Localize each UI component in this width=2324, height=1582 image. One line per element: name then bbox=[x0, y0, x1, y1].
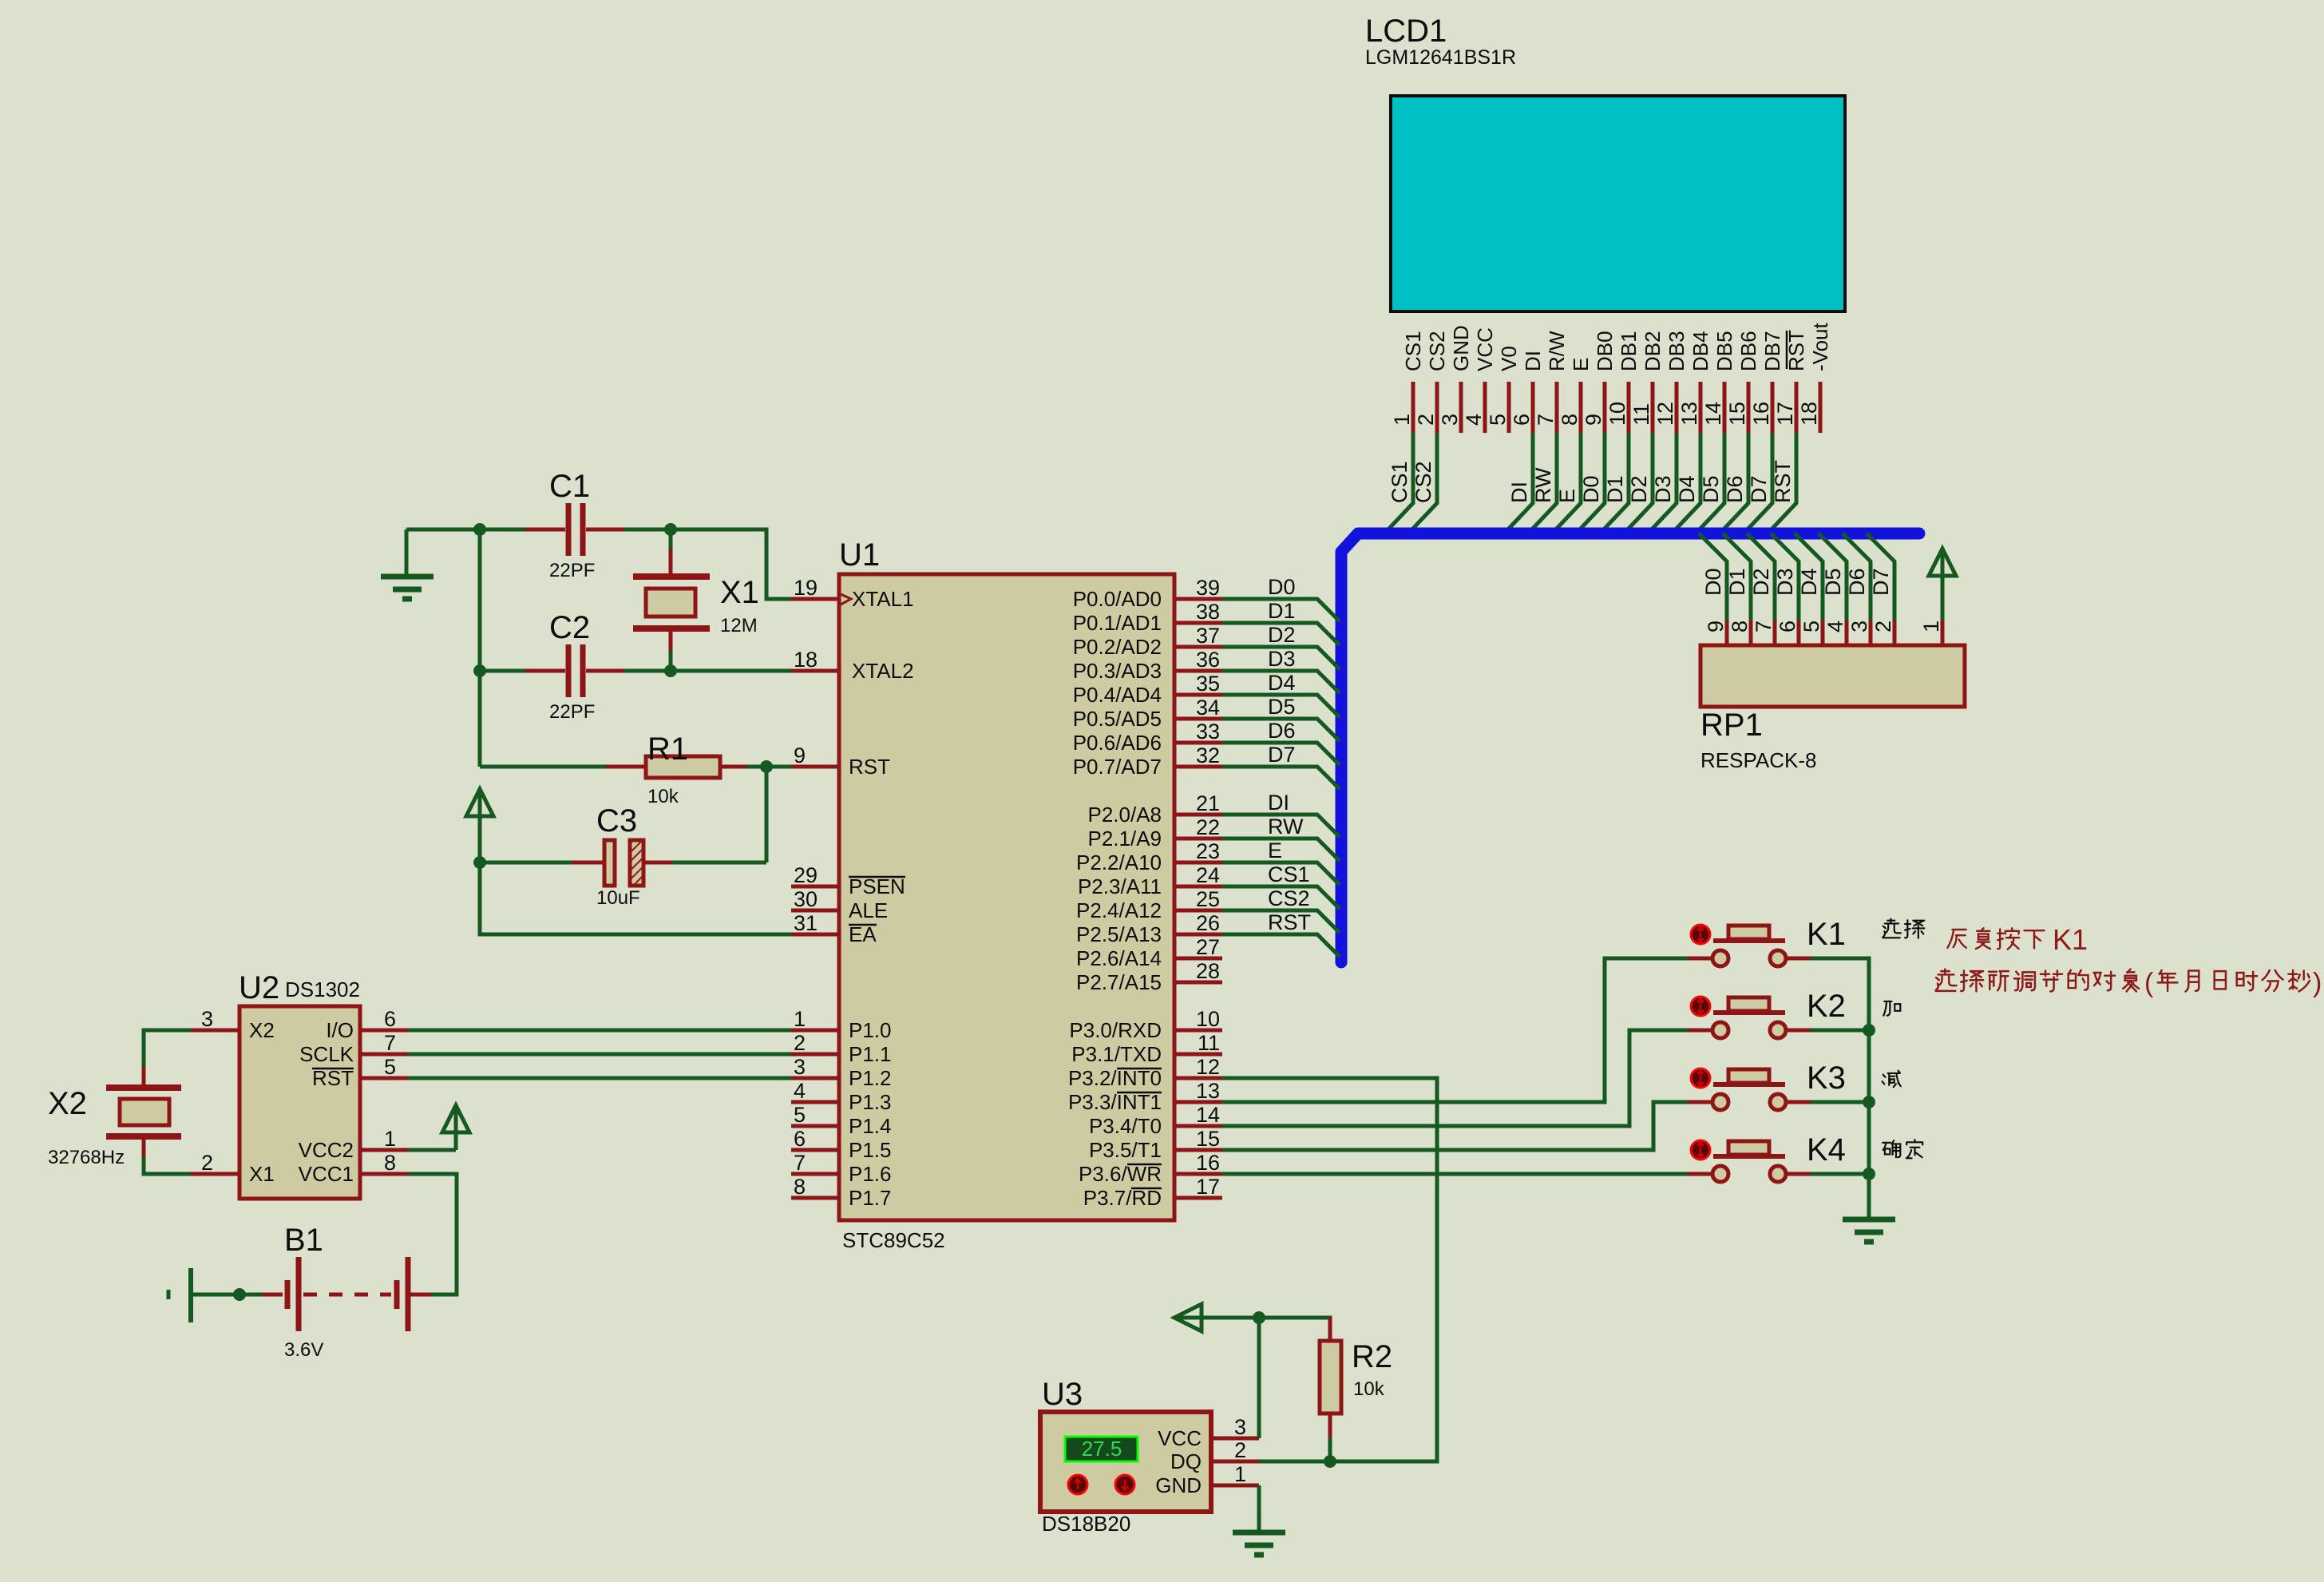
svg-text:R/W: R/W bbox=[1545, 331, 1569, 371]
svg-text:P3.5/T1: P3.5/T1 bbox=[1089, 1138, 1162, 1162]
resistor R1 bbox=[480, 765, 606, 769]
svg-text:1: 1 bbox=[1390, 414, 1414, 426]
svg-text:19: 19 bbox=[794, 576, 818, 600]
svg-text:P2.6/A14: P2.6/A14 bbox=[1076, 946, 1162, 970]
svg-text:E: E bbox=[1569, 358, 1593, 371]
wire LCD1 pin 11 net D2 to bus bbox=[1625, 433, 1653, 533]
svg-text:22PF: 22PF bbox=[549, 701, 595, 723]
svg-text:DI: DI bbox=[1521, 351, 1545, 371]
U1 pin 6 P1.5 bbox=[791, 1148, 839, 1152]
svg-text:CS1: CS1 bbox=[1401, 331, 1425, 371]
svg-text:U1: U1 bbox=[839, 537, 880, 573]
svg-text:DB7: DB7 bbox=[1760, 331, 1784, 371]
svg-text:31: 31 bbox=[794, 911, 818, 935]
svg-text:D3: D3 bbox=[1773, 568, 1797, 596]
svg-text:5: 5 bbox=[794, 1103, 806, 1127]
wire R1 junction down to C3 row bbox=[765, 767, 769, 862]
RP1 pin 8 stub and number bbox=[1749, 621, 1753, 645]
wire U1 P2.1 net RW to bus bbox=[1222, 839, 1340, 861]
svg-text:1: 1 bbox=[384, 1127, 396, 1151]
wire LCD1 pin 12 net D3 to bus bbox=[1649, 433, 1677, 533]
svg-text:14: 14 bbox=[1701, 402, 1725, 426]
temperature sensor U3 body bbox=[1040, 1412, 1211, 1512]
power symbol VCC above C3 bbox=[466, 789, 493, 816]
svg-text:P0.3/AD3: P0.3/AD3 bbox=[1073, 659, 1162, 683]
svg-text:7: 7 bbox=[1534, 414, 1558, 426]
svg-text:DS18B20: DS18B20 bbox=[1042, 1512, 1130, 1536]
wire LCD1 pin 8 net E to bus bbox=[1553, 433, 1581, 533]
svg-text:DI: DI bbox=[1268, 791, 1289, 815]
U1 pin 16 P3.6/WR bbox=[1174, 1172, 1222, 1176]
wire VCC rail to R2 top bbox=[1259, 1318, 1330, 1322]
U1 pin 34 P0.5/AD5 bbox=[1174, 717, 1222, 721]
svg-text:D5: D5 bbox=[1699, 475, 1723, 503]
wire LCD1 pin 10 net D1 to bus bbox=[1601, 433, 1629, 533]
U1 pin 39 P0.0/AD0 bbox=[1174, 597, 1222, 601]
svg-text:12: 12 bbox=[1196, 1055, 1220, 1079]
wire U2 RST to U1 P1.2 bbox=[408, 1076, 791, 1080]
RP1 pin 7 stub and number bbox=[1773, 621, 1777, 645]
svg-text:P0.1/AD1: P0.1/AD1 bbox=[1073, 611, 1162, 635]
svg-text:X1: X1 bbox=[720, 575, 759, 610]
U1 pin 30 ALE bbox=[791, 909, 839, 913]
svg-text:10k: 10k bbox=[1353, 1378, 1385, 1400]
RP1 pin 2 stub and number bbox=[1893, 621, 1897, 645]
svg-text:P2.3/A11: P2.3/A11 bbox=[1078, 874, 1162, 898]
wire LCD1 pin 6 net DI to bus bbox=[1505, 433, 1533, 533]
node junction R1-RST bbox=[760, 760, 773, 773]
wire U1 P0.7 net D7 to bus bbox=[1222, 767, 1340, 789]
svg-text:8: 8 bbox=[1728, 621, 1752, 632]
svg-text:VCC1: VCC1 bbox=[299, 1162, 354, 1186]
svg-text:16: 16 bbox=[1196, 1151, 1220, 1175]
U1 pin 29 PSEN bbox=[791, 885, 839, 889]
svg-text:15: 15 bbox=[1725, 402, 1749, 426]
svg-text:P0.7/AD7: P0.7/AD7 bbox=[1073, 755, 1162, 779]
svg-text:P1.7: P1.7 bbox=[849, 1186, 892, 1210]
RP1 pin 4 stub and number bbox=[1845, 621, 1849, 645]
svg-text:E: E bbox=[1555, 489, 1579, 503]
U1 pin 9 RST bbox=[791, 765, 839, 769]
svg-text:12M: 12M bbox=[720, 615, 758, 636]
node junction C2-left bbox=[473, 664, 486, 677]
svg-text:P1.0: P1.0 bbox=[849, 1018, 892, 1042]
svg-text:P1.1: P1.1 bbox=[849, 1042, 892, 1066]
svg-text:3: 3 bbox=[794, 1055, 806, 1079]
svg-text:DB6: DB6 bbox=[1736, 331, 1760, 371]
svg-text:CS1: CS1 bbox=[1268, 862, 1310, 886]
U2 pin 7 SCLK bbox=[360, 1053, 408, 1057]
svg-text:DB3: DB3 bbox=[1665, 331, 1689, 371]
svg-text:D4: D4 bbox=[1797, 568, 1821, 596]
svg-text:P0.4/AD4: P0.4/AD4 bbox=[1073, 683, 1162, 707]
svg-text:P0.0/AD0: P0.0/AD0 bbox=[1073, 587, 1162, 611]
node junction K4 rail bbox=[1863, 1168, 1875, 1180]
svg-text:D2: D2 bbox=[1627, 475, 1651, 503]
svg-text:CS2: CS2 bbox=[1425, 331, 1449, 371]
svg-text:1: 1 bbox=[1919, 621, 1943, 632]
svg-text:2: 2 bbox=[201, 1151, 213, 1175]
svg-text:B1: B1 bbox=[284, 1223, 323, 1258]
node junction C3-left bbox=[473, 856, 486, 869]
svg-text:C3: C3 bbox=[596, 803, 637, 839]
U1 pin 14 P3.4/T0 bbox=[1174, 1124, 1222, 1128]
svg-text:9: 9 bbox=[794, 743, 806, 767]
svg-text:STC89C52: STC89C52 bbox=[842, 1228, 945, 1252]
svg-text:P2.2/A10: P2.2/A10 bbox=[1076, 850, 1162, 874]
wire bus to RP1 pin 3 net D6 bbox=[1843, 533, 1871, 621]
svg-text:25: 25 bbox=[1196, 887, 1220, 911]
RP1 pin 9 stub and number bbox=[1725, 621, 1729, 645]
wire C3 junction down to EA bbox=[480, 862, 791, 934]
power symbol VCC at RP1 pin 1 bbox=[1929, 549, 1956, 576]
svg-text:VCC2: VCC2 bbox=[299, 1138, 354, 1162]
wire U1 P0.6 net D6 to bus bbox=[1222, 743, 1340, 765]
svg-text:K1: K1 bbox=[2053, 923, 2088, 956]
svg-text:10k: 10k bbox=[647, 786, 679, 807]
U1 pin 27 P2.6/A14 bbox=[1174, 957, 1222, 961]
svg-text:X2: X2 bbox=[249, 1018, 275, 1042]
svg-text:P3.7/RD: P3.7/RD bbox=[1083, 1186, 1162, 1210]
U1 pin 22 P2.1/A9 bbox=[1174, 837, 1222, 841]
wire bus to RP1 pin 8 net D1 bbox=[1723, 533, 1751, 621]
svg-text:7: 7 bbox=[384, 1031, 396, 1055]
svg-text:CS1: CS1 bbox=[1388, 461, 1411, 503]
svg-text:P1.6: P1.6 bbox=[849, 1162, 892, 1186]
crystal X2 and wires to U2 bbox=[144, 1030, 191, 1067]
svg-text:SCLK: SCLK bbox=[299, 1042, 354, 1066]
svg-text:RST: RST bbox=[312, 1066, 354, 1090]
svg-text:8: 8 bbox=[1558, 414, 1582, 426]
U1 pin 35 P0.4/AD4 bbox=[1174, 693, 1222, 697]
U1 pin 2 P1.1 bbox=[791, 1053, 839, 1057]
wire LCD1 pin 9 net D0 to bus bbox=[1577, 433, 1605, 533]
svg-text:P0.5/AD5: P0.5/AD5 bbox=[1073, 707, 1162, 731]
U1 pin 7 P1.6 bbox=[791, 1172, 839, 1176]
svg-text:D5: D5 bbox=[1268, 695, 1296, 719]
RP1 pin 1 stub and number bbox=[1941, 621, 1945, 645]
svg-text:D4: D4 bbox=[1675, 475, 1699, 503]
svg-text:R2: R2 bbox=[1352, 1339, 1392, 1374]
svg-text:PSEN: PSEN bbox=[849, 874, 905, 898]
wire X1 junction to XTAL1 corner bbox=[671, 529, 791, 599]
svg-text:3: 3 bbox=[1847, 621, 1871, 632]
microcontroller U1 body bbox=[839, 574, 1174, 1220]
svg-text:P2.4/A12: P2.4/A12 bbox=[1076, 898, 1162, 922]
svg-text:LCD1: LCD1 bbox=[1365, 14, 1447, 49]
node junction K3 rail bbox=[1863, 1096, 1875, 1108]
U1 pin 1 P1.0 bbox=[791, 1029, 839, 1033]
svg-text:10: 10 bbox=[1605, 402, 1629, 426]
RP1 pin 3 stub and number bbox=[1869, 621, 1873, 645]
svg-text:-Vout: -Vout bbox=[1808, 323, 1832, 371]
svg-text:DB0: DB0 bbox=[1593, 331, 1617, 371]
svg-text:3: 3 bbox=[1438, 414, 1462, 426]
power symbol VCC left arrow bbox=[1174, 1304, 1202, 1331]
node junction R2-DQ bbox=[1324, 1455, 1336, 1468]
wire C2 junction down to R1 row bbox=[478, 671, 482, 767]
svg-text:RW: RW bbox=[1531, 467, 1555, 503]
U1 XTAL1 clock input arrow bbox=[841, 594, 851, 605]
svg-text:18: 18 bbox=[1797, 402, 1821, 426]
U3 pin 3 VCC bbox=[1211, 1437, 1259, 1441]
svg-text:D6: D6 bbox=[1845, 568, 1869, 596]
svg-text:39: 39 bbox=[1196, 576, 1220, 600]
wire ground to C1 junction bbox=[406, 528, 480, 532]
svg-text:5: 5 bbox=[1799, 621, 1823, 632]
svg-text:EA: EA bbox=[849, 922, 877, 946]
U1 pin 28 P2.7/A15 bbox=[1174, 981, 1222, 985]
svg-text:26: 26 bbox=[1196, 911, 1220, 935]
svg-text:XTAL1: XTAL1 bbox=[852, 587, 914, 611]
svg-text:I/O: I/O bbox=[326, 1018, 354, 1042]
svg-text:P3.0/RXD: P3.0/RXD bbox=[1069, 1018, 1162, 1042]
U1 pin 26 P2.5/A13 bbox=[1174, 933, 1222, 937]
svg-text:4: 4 bbox=[794, 1079, 806, 1103]
RP1 pin 5 stub and number bbox=[1821, 621, 1825, 645]
svg-text:GND: GND bbox=[1449, 325, 1473, 371]
svg-text:RST: RST bbox=[1784, 330, 1808, 371]
svg-text:U3: U3 bbox=[1042, 1377, 1083, 1412]
U2 pin 2 X1 bbox=[191, 1172, 240, 1176]
svg-text:30: 30 bbox=[794, 887, 818, 911]
svg-text:27.5: 27.5 bbox=[1082, 1437, 1122, 1461]
ground at C1/C2 net bbox=[405, 529, 409, 574]
svg-text:8: 8 bbox=[384, 1151, 396, 1175]
U1 pin 8 P1.7 bbox=[791, 1196, 839, 1200]
node junction C1-left bbox=[473, 523, 486, 536]
U3 temperature display bbox=[1065, 1437, 1138, 1461]
U1 pin 15 P3.5/T1 bbox=[1174, 1148, 1222, 1152]
svg-text:P2.7/A15: P2.7/A15 bbox=[1076, 970, 1162, 994]
svg-text:27: 27 bbox=[1196, 935, 1220, 959]
svg-text:17: 17 bbox=[1196, 1175, 1220, 1199]
wire bus to RP1 pin 7 net D2 bbox=[1747, 533, 1775, 621]
wire U3 VCC up to power rail bbox=[1257, 1318, 1261, 1438]
svg-text:P3.2/INT0: P3.2/INT0 bbox=[1068, 1066, 1162, 1090]
LCD LCD1 screen body bbox=[1391, 96, 1845, 311]
annotation line 2 (select object year month day hour minute second) bbox=[1935, 969, 1956, 991]
wire C1 junction down to C2 junction bbox=[478, 529, 482, 671]
svg-text:X1: X1 bbox=[249, 1162, 275, 1186]
node junction VCC rail bbox=[1253, 1311, 1265, 1324]
ground at U3 bbox=[1233, 1530, 1285, 1536]
svg-text:DB5: DB5 bbox=[1712, 331, 1736, 371]
svg-text:8: 8 bbox=[794, 1175, 806, 1199]
wire U1 P3.6 to K4 bbox=[1222, 1172, 1688, 1176]
svg-text:D1: D1 bbox=[1603, 475, 1627, 503]
resistor pack RP1 body bbox=[1700, 645, 1965, 707]
U1 pin 4 P1.3 bbox=[791, 1100, 839, 1104]
svg-text:DI: DI bbox=[1507, 482, 1531, 503]
svg-text:D2: D2 bbox=[1268, 623, 1296, 647]
wire U1 P0.2 net D2 to bus bbox=[1222, 647, 1340, 669]
RP1 pin 6 stub and number bbox=[1797, 621, 1801, 645]
U1 pin 18 XTAL2 bbox=[791, 669, 839, 673]
svg-text:10uF: 10uF bbox=[596, 887, 640, 909]
U1 pin 13 P3.3/INT1 bbox=[1174, 1100, 1222, 1104]
wire C1 left stub bbox=[480, 528, 565, 532]
wire U1 P3.3 to K1 bbox=[1222, 958, 1688, 1102]
svg-text:(: ( bbox=[2144, 968, 2154, 998]
U1 pin 19 XTAL1 bbox=[791, 597, 839, 601]
node junction X1-bottom bbox=[664, 664, 677, 677]
svg-text:RESPACK-8: RESPACK-8 bbox=[1700, 748, 1816, 772]
wire LCD1 pin 2 net CS2 to bus bbox=[1409, 433, 1437, 533]
svg-text:CS2: CS2 bbox=[1411, 461, 1435, 503]
node junction battery bbox=[233, 1288, 246, 1301]
svg-text:RST: RST bbox=[1771, 460, 1795, 503]
svg-text:4: 4 bbox=[1462, 414, 1486, 426]
svg-text:LGM12641BS1R: LGM12641BS1R bbox=[1365, 46, 1516, 69]
U1 pin 38 P0.1/AD1 bbox=[1174, 621, 1222, 625]
wire U3 DQ through R2 junction to U1 P3.2 bbox=[1222, 1078, 1437, 1461]
node junction X1-top bbox=[664, 523, 677, 536]
ground at button rail bbox=[1843, 1217, 1895, 1223]
wire bus to RP1 pin 9 net D0 bbox=[1699, 533, 1727, 621]
svg-text:16: 16 bbox=[1749, 402, 1773, 426]
U3 pin 1 GND bbox=[1211, 1484, 1259, 1488]
U1 pin 31 EA bbox=[791, 933, 839, 937]
svg-text:22PF: 22PF bbox=[549, 560, 595, 581]
wire U1 P0.0 net D0 to bus bbox=[1222, 599, 1340, 621]
wire LCD1 pin 7 net RW to bus bbox=[1529, 433, 1557, 533]
K1 function label (select) bbox=[1883, 919, 1901, 938]
wire U1 P0.4 net D4 to bus bbox=[1222, 695, 1340, 717]
bus (blue) from LCD/RP1 down to U1 P0/P2 area bbox=[1341, 533, 1919, 962]
svg-text:R1: R1 bbox=[647, 732, 688, 767]
push button K1 bbox=[1691, 925, 1710, 944]
svg-text:P3.6/WR: P3.6/WR bbox=[1079, 1162, 1162, 1186]
svg-text:37: 37 bbox=[1196, 624, 1220, 648]
svg-text:P3.1/TXD: P3.1/TXD bbox=[1071, 1042, 1162, 1066]
svg-text:VCC: VCC bbox=[1473, 327, 1497, 371]
svg-text:RST: RST bbox=[1268, 910, 1311, 934]
svg-text:CS2: CS2 bbox=[1268, 886, 1310, 910]
svg-text:6: 6 bbox=[794, 1127, 806, 1151]
svg-text:2: 2 bbox=[1414, 414, 1438, 426]
svg-text:6: 6 bbox=[1510, 414, 1534, 426]
svg-text:7: 7 bbox=[794, 1151, 806, 1175]
U1 pin 32 P0.7/AD7 bbox=[1174, 765, 1222, 769]
push button K2 bbox=[1691, 997, 1710, 1016]
K3 function label (minus) bbox=[1883, 1071, 1901, 1088]
wire K1 to common rail bbox=[1811, 958, 1869, 1219]
svg-text:ALE: ALE bbox=[849, 898, 888, 922]
svg-text:10: 10 bbox=[1196, 1007, 1220, 1031]
svg-text:11: 11 bbox=[1629, 403, 1653, 426]
svg-text:12: 12 bbox=[1653, 402, 1677, 426]
svg-text:D0: D0 bbox=[1579, 475, 1603, 503]
U2 pin 5 RST bbox=[360, 1076, 408, 1080]
U1 pin 17 P3.7/RD bbox=[1174, 1196, 1222, 1200]
svg-text:K1: K1 bbox=[1807, 917, 1846, 952]
svg-text:15: 15 bbox=[1196, 1127, 1220, 1151]
svg-text:P2.1/A9: P2.1/A9 bbox=[1087, 827, 1162, 850]
wire bus to RP1 pin 6 net D3 bbox=[1771, 533, 1799, 621]
U2 pin 6 I/O bbox=[360, 1029, 408, 1033]
svg-text:GND: GND bbox=[1155, 1473, 1202, 1497]
svg-text:K2: K2 bbox=[1807, 989, 1846, 1024]
svg-text:D2: D2 bbox=[1749, 568, 1773, 596]
svg-text:2: 2 bbox=[794, 1031, 806, 1055]
wire K4 to rail bbox=[1811, 1172, 1869, 1176]
crystal X1 bbox=[669, 533, 673, 549]
U1 pin 11 P3.1/TXD bbox=[1174, 1053, 1222, 1057]
svg-text:3: 3 bbox=[201, 1007, 213, 1031]
svg-text:P2.5/A13: P2.5/A13 bbox=[1076, 922, 1162, 946]
svg-text:24: 24 bbox=[1196, 863, 1220, 887]
svg-text:V0: V0 bbox=[1497, 346, 1521, 371]
wire U3 GND down to ground bbox=[1257, 1485, 1261, 1531]
svg-text:VCC: VCC bbox=[1158, 1426, 1202, 1450]
svg-text:13: 13 bbox=[1677, 402, 1701, 426]
svg-text:DB4: DB4 bbox=[1689, 331, 1712, 371]
wire U2 SCLK to U1 P1.1 bbox=[408, 1053, 791, 1057]
push button K4 bbox=[1691, 1140, 1710, 1160]
svg-text:D1: D1 bbox=[1725, 568, 1749, 596]
svg-text:K3: K3 bbox=[1807, 1061, 1846, 1096]
svg-text:X2: X2 bbox=[48, 1086, 87, 1121]
U1 pin 3 P1.2 bbox=[791, 1076, 839, 1080]
wire LCD1 pin 13 net D4 to bus bbox=[1673, 433, 1700, 533]
svg-text:P3.4/T0: P3.4/T0 bbox=[1089, 1114, 1162, 1138]
wire K3 to rail bbox=[1811, 1100, 1869, 1104]
svg-text:17: 17 bbox=[1773, 402, 1797, 426]
wire U1 P2.0 net DI to bus bbox=[1222, 815, 1340, 837]
battery B1 bbox=[167, 1290, 171, 1299]
U1 pin 37 P0.2/AD2 bbox=[1174, 645, 1222, 649]
svg-text:9: 9 bbox=[1704, 621, 1728, 632]
wire LCD1 pin 17 net RST to bus bbox=[1768, 433, 1796, 533]
wire U1 P0.3 net D3 to bus bbox=[1222, 671, 1340, 693]
capacitor C3 bbox=[480, 861, 572, 865]
svg-text:32: 32 bbox=[1196, 743, 1220, 767]
U3 down button bbox=[1115, 1475, 1134, 1494]
wire U2 VCC1 to battery B1 bbox=[408, 1174, 457, 1295]
svg-text:9: 9 bbox=[1582, 414, 1605, 426]
svg-text:): ) bbox=[2313, 968, 2322, 998]
svg-text:D7: D7 bbox=[1268, 743, 1296, 767]
wire LCD1 pin 14 net D5 to bus bbox=[1696, 433, 1724, 533]
wire U1 P0.5 net D5 to bus bbox=[1222, 719, 1340, 741]
svg-text:RP1: RP1 bbox=[1700, 708, 1763, 743]
svg-text:DQ: DQ bbox=[1170, 1449, 1202, 1473]
svg-text:D6: D6 bbox=[1723, 475, 1747, 503]
svg-text:P1.4: P1.4 bbox=[849, 1114, 892, 1138]
wire U1 P2.3 net CS1 to bus bbox=[1222, 886, 1340, 909]
wire U1 P2.5 net RST to bus bbox=[1222, 934, 1340, 957]
svg-text:2: 2 bbox=[1871, 621, 1895, 632]
svg-text:RST: RST bbox=[849, 755, 890, 779]
U2 pin 8 VCC1 bbox=[360, 1172, 408, 1176]
U2 pin 1 VCC2 bbox=[360, 1148, 408, 1152]
svg-text:D3: D3 bbox=[1268, 647, 1296, 671]
U3 pin 2 DQ bbox=[1211, 1460, 1259, 1464]
svg-text:32768Hz: 32768Hz bbox=[48, 1147, 125, 1168]
svg-text:D7: D7 bbox=[1869, 568, 1893, 596]
U1 pin 24 P2.3/A11 bbox=[1174, 885, 1222, 889]
svg-text:RW: RW bbox=[1268, 815, 1304, 839]
wire U1 P0.1 net D1 to bus bbox=[1222, 623, 1340, 645]
svg-text:33: 33 bbox=[1196, 720, 1220, 743]
svg-text:28: 28 bbox=[1196, 959, 1220, 983]
U1 pin 21 P2.0/A8 bbox=[1174, 813, 1222, 817]
svg-text:29: 29 bbox=[794, 863, 818, 887]
U1 pin 10 P3.0/RXD bbox=[1174, 1029, 1222, 1033]
svg-text:6: 6 bbox=[1776, 621, 1799, 632]
svg-text:D5: D5 bbox=[1821, 568, 1845, 596]
